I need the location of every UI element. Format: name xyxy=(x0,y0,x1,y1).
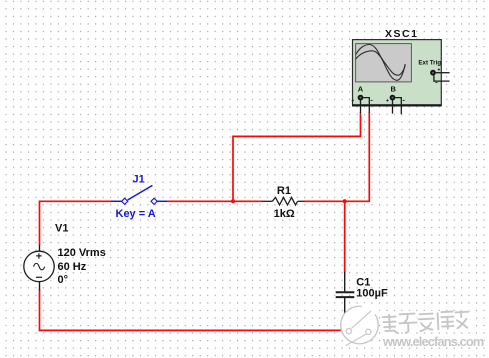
scope pin ExtTrig- xyxy=(434,76,450,82)
scope pin ExtTrig+ xyxy=(436,72,450,74)
capacitor C1 xyxy=(336,272,355,313)
wire: bottom loop from V1 down, along bottom, up to C1 xyxy=(40,290,345,331)
svg-text:V1: V1 xyxy=(55,222,68,234)
svg-text:0°: 0° xyxy=(58,274,69,286)
svg-text:1kΩ: 1kΩ xyxy=(274,208,295,220)
svg-text:60 Hz: 60 Hz xyxy=(58,261,87,273)
oscilloscope XSC1 body xyxy=(352,40,442,106)
watermark chinese characters xyxy=(380,308,471,335)
svg-text:120 Vrms: 120 Vrms xyxy=(58,247,106,259)
svg-text:A: A xyxy=(358,84,364,93)
svg-text:100µF: 100µF xyxy=(356,287,388,299)
waveform trace channel B xyxy=(356,51,405,75)
scope screen xyxy=(356,44,412,82)
scope terminal ExtTrig xyxy=(430,70,436,76)
switch J1 xyxy=(111,185,167,204)
wire: node to capacitor C1 top xyxy=(344,201,346,272)
svg-text:J1: J1 xyxy=(133,174,145,186)
scope pin A+ xyxy=(360,100,362,113)
svg-text:Key = A: Key = A xyxy=(116,208,156,220)
scope terminal A xyxy=(358,95,364,101)
junction node at R1/C1 xyxy=(343,199,347,203)
waveform trace channel A xyxy=(356,45,405,81)
svg-text:R1: R1 xyxy=(277,185,291,197)
source V1 symbol xyxy=(24,245,54,290)
scope pin A- xyxy=(363,98,369,113)
svg-text:Ext Trig: Ext Trig xyxy=(418,59,441,66)
scope terminal B xyxy=(390,95,396,101)
svg-text:XSC1: XSC1 xyxy=(385,28,418,40)
wire: resistor R1 to scope A- corner xyxy=(304,113,369,202)
watermark url text xyxy=(382,334,485,350)
svg-text:www.elecfans.com: www.elecfans.com xyxy=(382,334,484,349)
resistor R1 xyxy=(262,197,304,205)
svg-text:B: B xyxy=(391,84,397,93)
scope pin B- xyxy=(395,98,401,115)
junction node at switch/scope A+ xyxy=(231,199,235,203)
wire: scope A+ down, left, down to main node xyxy=(233,113,361,202)
scope polarity marks xyxy=(352,68,440,101)
wire: top-left corner from V1 up to switch J1 xyxy=(40,201,112,245)
wire: switch J1 to resistor R1 xyxy=(167,200,263,202)
watermark logo circle xyxy=(341,302,380,346)
scope pin B+ xyxy=(392,100,394,113)
